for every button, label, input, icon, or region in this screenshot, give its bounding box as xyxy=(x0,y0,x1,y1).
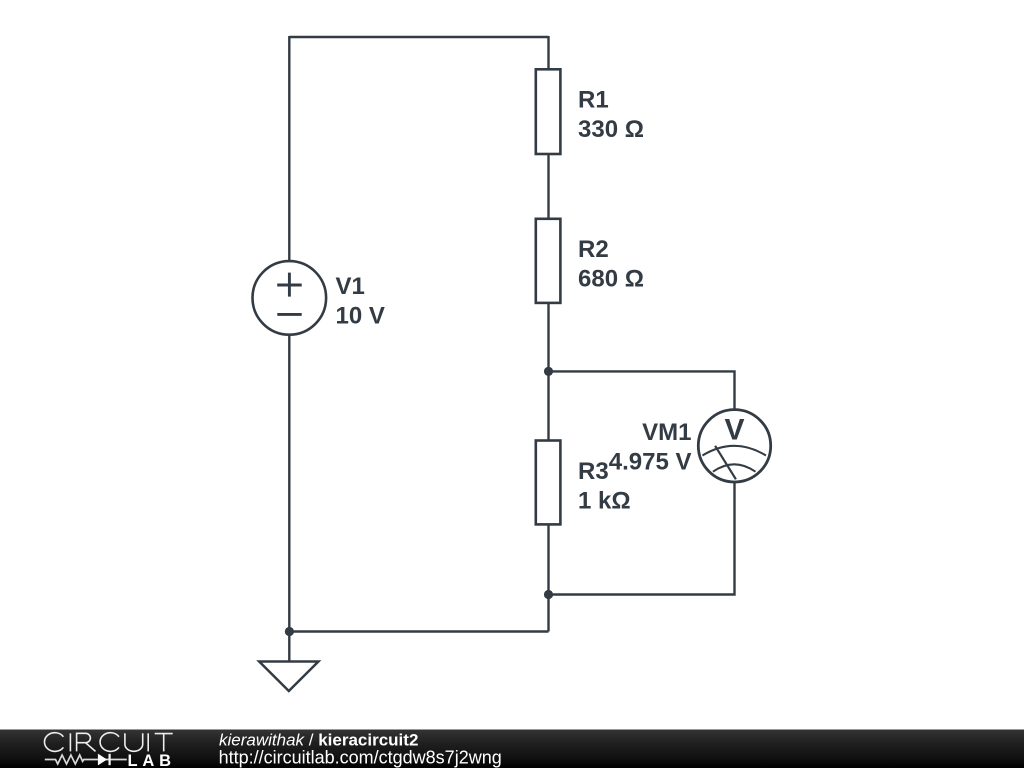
svg-text:kierawithak / kieracircuit2: kierawithak / kieracircuit2 xyxy=(219,730,418,749)
wire bottom horizontal xyxy=(289,630,548,632)
resistor R1 xyxy=(536,69,561,154)
svg-text:680 Ω: 680 Ω xyxy=(578,266,644,293)
svg-text:1 kΩ: 1 kΩ xyxy=(578,487,631,514)
resistor R3 xyxy=(536,441,561,525)
svg-text:V1: V1 xyxy=(336,273,365,300)
logo letter R xyxy=(77,733,96,751)
wire R2 to node A xyxy=(547,304,549,441)
svg-text:4.975 V: 4.975 V xyxy=(609,448,692,475)
wire R3 to node B and bottom xyxy=(547,525,549,632)
ground node junction dot xyxy=(285,627,294,636)
logo letter I2 xyxy=(147,733,149,751)
svg-text:R2: R2 xyxy=(578,236,609,263)
logo letter T xyxy=(155,734,173,752)
node B junction dot xyxy=(544,590,553,599)
svg-text:330 Ω: 330 Ω xyxy=(578,116,644,143)
logo letter U xyxy=(125,733,143,751)
logo diode cathode bar xyxy=(108,754,110,765)
node A junction dot xyxy=(544,367,553,376)
logo letter I xyxy=(69,733,71,751)
logo letter C2 xyxy=(100,733,119,752)
wire top horizontal xyxy=(289,36,548,38)
voltage source V1 xyxy=(252,261,326,335)
svg-text:http://circuitlab.com/ctgdw8s7: http://circuitlab.com/ctgdw8s7j2wng xyxy=(219,748,502,768)
ground symbol xyxy=(259,662,318,692)
logo resistor zigzag wire xyxy=(45,755,98,764)
logo diode line xyxy=(98,759,127,761)
wire voltmeter bottom to node B xyxy=(549,483,735,595)
svg-text:VM1: VM1 xyxy=(642,419,691,446)
wire node A to voltmeter top xyxy=(549,371,735,409)
footer bar xyxy=(0,730,1024,768)
wire R1 to R2 xyxy=(547,155,549,219)
svg-text:R1: R1 xyxy=(578,87,609,114)
voltmeter VM1 xyxy=(698,410,770,482)
logo letter C xyxy=(44,733,63,752)
svg-text:R3: R3 xyxy=(578,458,609,485)
svg-text:10 V: 10 V xyxy=(336,302,385,329)
wire ground stub xyxy=(288,632,290,662)
wire right vertical to R1 top xyxy=(547,36,549,69)
wire left vertical to V1 top xyxy=(288,36,290,260)
wire V1 bottom to ground node xyxy=(288,335,290,631)
svg-text:V: V xyxy=(724,413,744,446)
logo diode triangle xyxy=(98,754,107,766)
resistor R2 xyxy=(536,219,561,303)
svg-text:LAB: LAB xyxy=(128,752,176,768)
